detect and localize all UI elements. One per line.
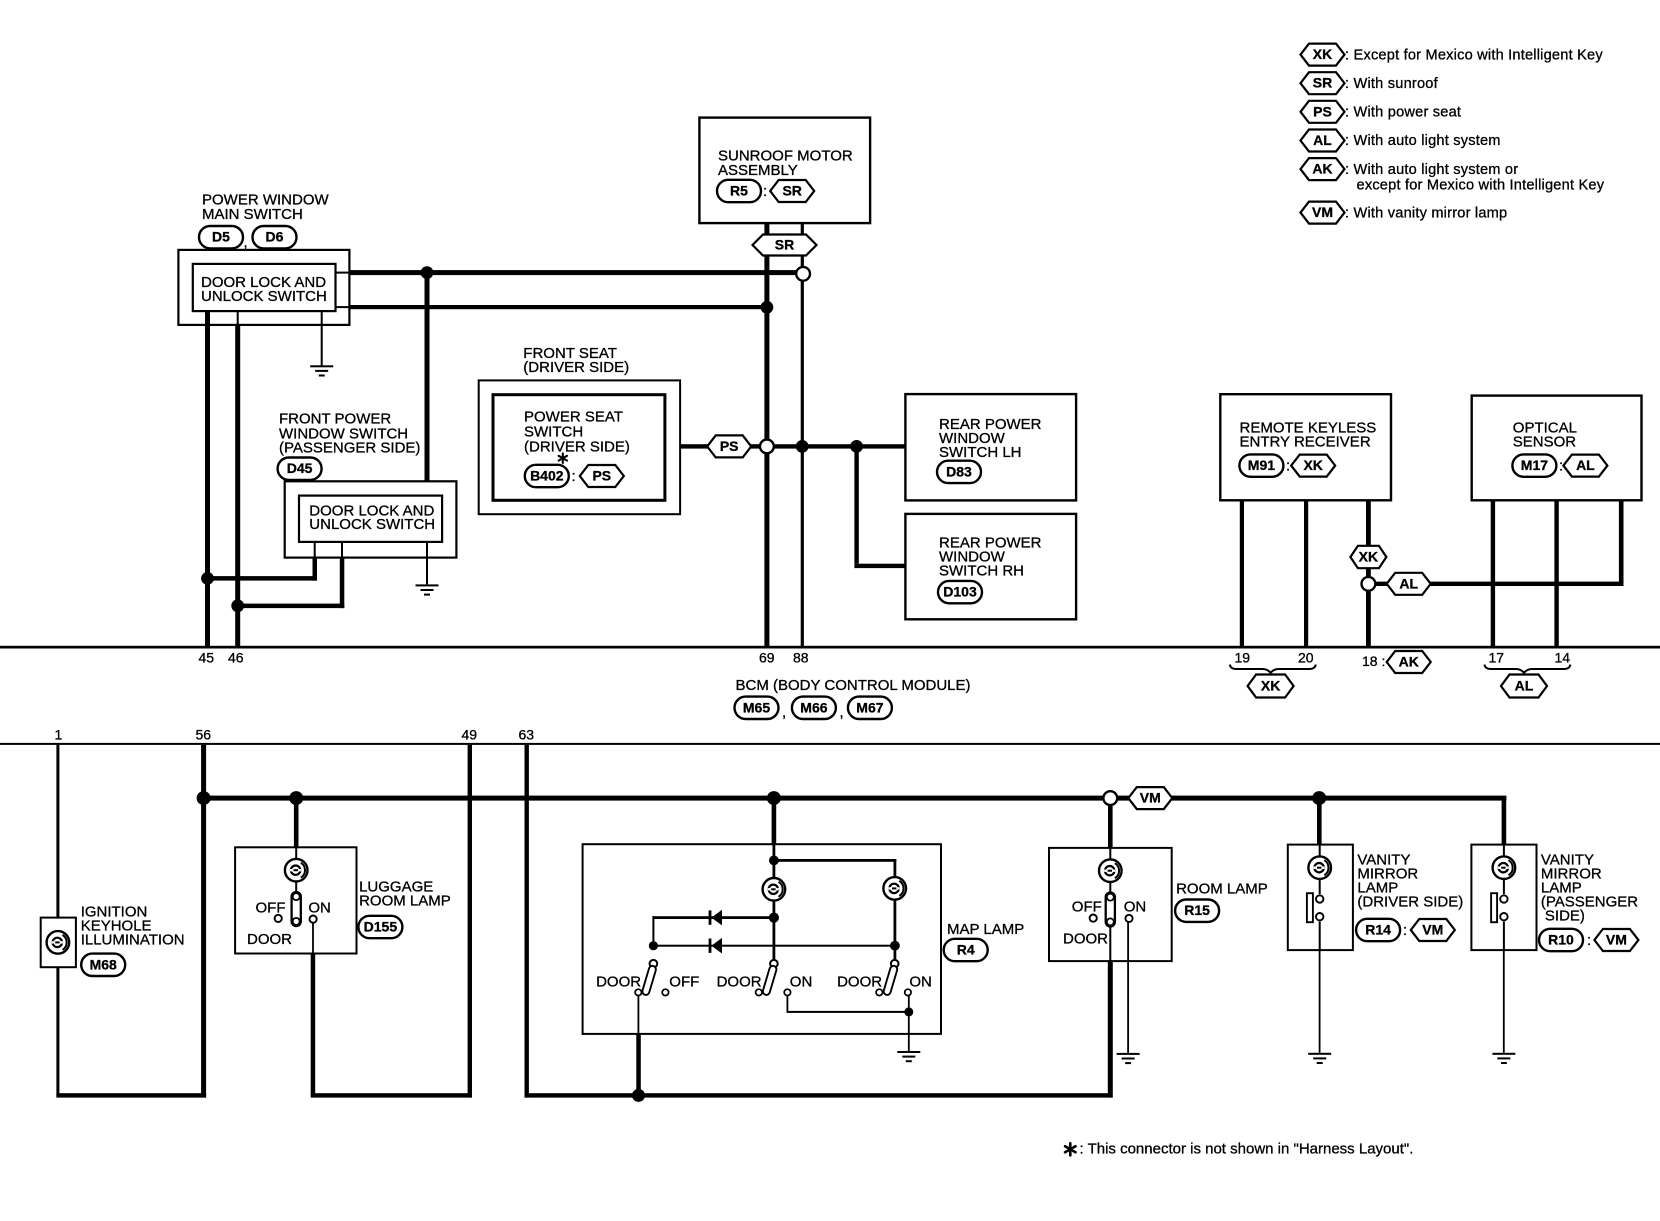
wire bus3 segment 63 to room lamp — [525, 1093, 1113, 1097]
svg-text:SENSOR: SENSOR — [1513, 434, 1577, 451]
door lock and unlock switch D5 inner box — [193, 264, 336, 311]
svg-text:D5: D5 — [212, 229, 230, 245]
svg-text:,: , — [840, 704, 844, 721]
legend PS symbol — [1301, 101, 1345, 123]
contact ON room — [1125, 915, 1132, 922]
ignition keyhole illumination box — [41, 918, 76, 968]
svg-text:19: 19 — [1235, 650, 1251, 666]
contact DOOR switch2 — [756, 989, 762, 995]
svg-text:XK: XK — [1303, 457, 1322, 473]
svg-text:: With auto light system or: : With auto light system or — [1345, 162, 1518, 178]
svg-text:D45: D45 — [287, 460, 313, 476]
svg-text:AL: AL — [1576, 457, 1595, 473]
svg-text:R15: R15 — [1184, 902, 1210, 918]
svg-text:except for Mexico with Intelli: except for Mexico with Intelligent Key — [1357, 178, 1605, 194]
connector D155 — [358, 916, 402, 938]
wire map top branch to right lamp — [773, 859, 897, 862]
wire AL branch vertical to optical sensor — [1619, 500, 1624, 586]
switch2 map pivot — [770, 960, 778, 968]
wire switch2 ON output — [787, 996, 789, 1012]
svg-text:46: 46 — [228, 650, 244, 666]
svg-text:XK: XK — [1313, 46, 1332, 62]
option SR on wires — [753, 235, 817, 256]
wire vanity passenger feed — [1502, 798, 1507, 845]
svg-text:VM: VM — [1422, 922, 1443, 938]
ground main switch — [310, 365, 333, 376]
diode D1 — [709, 910, 722, 926]
svg-text:XK: XK — [1359, 549, 1378, 565]
svg-text:: With sunroof: : With sunroof — [1345, 76, 1439, 92]
contact ON switch2 — [784, 989, 790, 995]
svg-text:SR: SR — [775, 237, 794, 253]
BCM bus line top — [0, 646, 1660, 649]
svg-text:M68: M68 — [90, 956, 117, 972]
svg-text:VM: VM — [1312, 204, 1333, 220]
junction map top branch — [769, 856, 779, 866]
junction row1 branch — [421, 266, 434, 279]
svg-text:1: 1 — [55, 727, 63, 743]
svg-text:: This connector is not shown: : This connector is not shown in "Harnes… — [1080, 1141, 1414, 1158]
option VM on distribution wire — [1128, 787, 1172, 809]
switch vanity driver — [1307, 893, 1324, 922]
svg-text:DOOR: DOOR — [837, 974, 882, 991]
junction at 88-wire row3 — [796, 440, 809, 453]
wire inside vanity passenger box — [1503, 845, 1505, 895]
svg-text:M91: M91 — [1248, 457, 1275, 473]
svg-text:ENTRY RECEIVER: ENTRY RECEIVER — [1240, 434, 1371, 451]
option PS in seat box — [580, 465, 624, 487]
brace under pins 19-20 — [1230, 665, 1316, 673]
svg-text:69: 69 — [759, 650, 775, 666]
svg-text:: Except for Mexico with Intel: : Except for Mexico with Intelligent Key — [1345, 47, 1603, 63]
wire pin46 vertical — [237, 311, 239, 325]
svg-text:R10: R10 — [1548, 932, 1574, 948]
note asterisk harness layout — [1065, 1143, 1075, 1155]
svg-text:17: 17 — [1489, 650, 1505, 666]
lamp vanity passenger — [1493, 856, 1516, 879]
wire pin20 vertical — [1304, 500, 1308, 646]
junction vanity driver feed — [1312, 791, 1326, 805]
wire inside luggage box — [295, 847, 297, 899]
ground passenger switch — [416, 584, 439, 595]
svg-text:B402: B402 — [530, 468, 564, 484]
svg-text::: : — [1403, 922, 1407, 939]
BCM bus line bottom — [0, 743, 1660, 745]
wire luggage ON output — [312, 922, 314, 953]
wire diode row2 — [653, 945, 895, 947]
switch luggage room lamp — [292, 892, 301, 926]
svg-text:R5: R5 — [730, 183, 748, 199]
svg-text:(DRIVER SIDE): (DRIVER SIDE) — [523, 359, 629, 376]
svg-text:SR: SR — [782, 183, 801, 199]
switch vanity passenger — [1491, 893, 1508, 922]
svg-text:: With auto light system: : With auto light system — [1345, 133, 1501, 149]
door lock and unlock switch D45 inner box — [299, 496, 442, 542]
wire right lamp to switch3 — [894, 899, 897, 962]
contact DOOR switch1 — [635, 989, 641, 995]
legend SR symbol — [1301, 72, 1345, 94]
rear power window switch LH box — [905, 394, 1076, 500]
option XK under brace — [1248, 675, 1294, 698]
junction ON outputs — [904, 1007, 913, 1016]
junction row2 at 69-wire — [761, 301, 774, 314]
junction pin45 row — [201, 572, 214, 585]
svg-text::: : — [763, 183, 767, 200]
connector M91 — [1239, 454, 1283, 476]
connector M68 — [81, 954, 125, 976]
ground room lamp — [1117, 1053, 1140, 1064]
wire PS hexagon to rear window LH — [750, 444, 905, 448]
option VM at R10 — [1594, 929, 1638, 951]
wire inside vanity driver box — [1319, 845, 1321, 895]
svg-text::: : — [572, 468, 576, 485]
wire switch3 ON to ground — [908, 996, 910, 1012]
brace under pins 17-14 — [1484, 665, 1570, 673]
option AK below pin 18 — [1387, 651, 1431, 673]
lamp ignition keyhole — [47, 931, 70, 954]
svg-text:ON: ON — [909, 974, 932, 991]
option PS on wire — [707, 435, 751, 457]
switch3 map bar — [883, 965, 898, 996]
svg-text:UNLOCK SWITCH: UNLOCK SWITCH — [201, 288, 327, 305]
vanity mirror lamp driver box — [1288, 845, 1353, 951]
option XK in receiver box — [1291, 455, 1335, 477]
front power window switch outer box — [285, 481, 457, 557]
svg-text:ON: ON — [1124, 899, 1147, 916]
open junction PS at 69-wire — [760, 440, 774, 454]
contact ON switch3 — [905, 989, 911, 995]
switch room lamp — [1106, 893, 1115, 927]
wire passenger pin a down-left — [314, 542, 316, 558]
svg-text:VM: VM — [1140, 790, 1161, 806]
wire pin63 vertical — [525, 745, 529, 1098]
svg-text:ROOM LAMP: ROOM LAMP — [1176, 881, 1268, 898]
junction map diode row1 — [769, 913, 779, 923]
open junction VM at room lamp — [1103, 791, 1117, 805]
svg-text:AL: AL — [1313, 132, 1332, 148]
luggage room lamp box — [235, 847, 356, 953]
wire vanity passenger to ground — [1503, 950, 1505, 1053]
svg-text:M67: M67 — [856, 699, 883, 715]
switch1 map pivot — [650, 960, 658, 968]
svg-text:(DRIVER SIDE): (DRIVER SIDE) — [1357, 894, 1463, 911]
wire distribution horizontal — [201, 796, 1506, 801]
wire ground stub main switch — [321, 311, 323, 366]
wire inside room lamp box — [1109, 848, 1111, 961]
connector D103 — [938, 581, 982, 603]
svg-text:PS: PS — [1313, 103, 1332, 119]
svg-text:PS: PS — [592, 468, 611, 484]
wire pin17 vertical — [1491, 500, 1495, 646]
wire pin88 vertical — [801, 223, 804, 647]
svg-text:XK: XK — [1261, 678, 1280, 694]
svg-text:OFF: OFF — [256, 900, 286, 917]
wire room ON to ground — [1127, 922, 1129, 1053]
wire switch1 DOOR output — [638, 996, 640, 1034]
room lamp box — [1049, 848, 1172, 961]
svg-text:M65: M65 — [743, 699, 770, 715]
svg-text:AK: AK — [1312, 161, 1332, 177]
option VM at R14 — [1411, 919, 1455, 941]
lamp vanity driver — [1308, 856, 1331, 879]
svg-text:D155: D155 — [364, 919, 398, 935]
svg-text:D83: D83 — [946, 463, 972, 479]
wire left lamp to switch2 — [773, 900, 776, 962]
wire pin56 vertical — [201, 745, 206, 1098]
contact ON luggage — [310, 916, 317, 923]
option AL on branch wire — [1387, 573, 1431, 595]
junction rear window branch — [850, 440, 863, 453]
svg-text:D6: D6 — [266, 229, 284, 245]
svg-text:45: 45 — [199, 650, 215, 666]
svg-text:ILLUMINATION: ILLUMINATION — [81, 932, 185, 949]
svg-text:SR: SR — [1313, 75, 1332, 91]
option AL under brace — [1501, 675, 1547, 698]
wire power seat to PS hexagon — [680, 444, 708, 448]
wire pin19 vertical — [1240, 500, 1244, 646]
switch3 map pivot — [891, 960, 899, 968]
svg-text:ON: ON — [308, 900, 331, 917]
svg-text:,: , — [244, 234, 248, 251]
ground vanity driver — [1308, 1053, 1331, 1064]
svg-text:OFF: OFF — [669, 974, 699, 991]
svg-text:20: 20 — [1298, 650, 1314, 666]
lamp map left — [763, 878, 786, 901]
map lamp box — [583, 844, 941, 1034]
option XK on wire 18 — [1350, 546, 1386, 568]
wire pin1 vertical — [56, 745, 59, 1097]
ground map lamp — [897, 1051, 920, 1062]
legend AL symbol — [1301, 130, 1345, 152]
svg-text::: : — [1286, 458, 1290, 475]
connector M67 — [848, 697, 892, 719]
remote keyless entry receiver box — [1220, 394, 1391, 500]
svg-text:(PASSENGER SIDE): (PASSENGER SIDE) — [279, 440, 420, 457]
svg-text:14: 14 — [1555, 650, 1571, 666]
contact OFF luggage — [275, 915, 282, 922]
svg-text:AK: AK — [1399, 654, 1419, 670]
connector M66 — [792, 697, 836, 719]
connector D5 — [199, 226, 243, 248]
svg-text:M17: M17 — [1521, 457, 1548, 473]
wire row1 horizontal to sunroof SR circle — [336, 272, 350, 274]
contact OFF room — [1090, 915, 1097, 922]
wire pin49 vertical — [468, 745, 472, 1098]
connector D6 — [253, 226, 297, 248]
svg-text:: With vanity mirror lamp: : With vanity mirror lamp — [1345, 205, 1507, 221]
svg-text:AL: AL — [1515, 678, 1534, 694]
wire bottom U pin1 to pin56 — [56, 1093, 206, 1097]
svg-text:18 :: 18 : — [1362, 653, 1385, 669]
wire branch down from row1 to passenger switch — [425, 273, 430, 496]
connector R14 — [1356, 919, 1400, 941]
svg-text:R14: R14 — [1365, 922, 1391, 938]
connector R5 — [717, 180, 761, 202]
switch1 map bar — [642, 965, 657, 996]
ground vanity passenger — [1492, 1053, 1515, 1064]
connector R4 — [944, 939, 988, 961]
optical sensor box — [1472, 396, 1642, 501]
legend AK symbol — [1301, 158, 1345, 180]
svg-text:ON: ON — [790, 974, 813, 991]
svg-text:MAP LAMP: MAP LAMP — [947, 921, 1024, 938]
svg-text:DOOR: DOOR — [1063, 931, 1108, 948]
wire vanity driver feed — [1317, 798, 1322, 845]
option AL in optical box — [1563, 455, 1607, 477]
open junction XK-AL at wire 18 — [1362, 577, 1376, 591]
connector M17 — [1512, 454, 1556, 476]
svg-text:AL: AL — [1399, 575, 1418, 591]
svg-text:D103: D103 — [943, 584, 977, 600]
connector R15 — [1175, 900, 1219, 922]
junction pin46 row — [231, 599, 244, 612]
svg-text:VM: VM — [1606, 932, 1627, 948]
svg-text:M66: M66 — [800, 699, 827, 715]
svg-text:DOOR: DOOR — [596, 974, 641, 991]
junction map lamp feed — [767, 791, 781, 805]
svg-text:BCM (BODY CONTROL MODULE): BCM (BODY CONTROL MODULE) — [736, 677, 971, 694]
asterisk B402 — [559, 453, 567, 463]
svg-text:R4: R4 — [957, 942, 975, 958]
wire room lamp to bus3 — [1108, 961, 1113, 1098]
wire AL branch horizontal — [1368, 582, 1621, 586]
svg-text:63: 63 — [519, 727, 535, 743]
vanity mirror lamp passenger box — [1471, 845, 1536, 951]
wire map feed inside to left lamp — [773, 844, 776, 878]
svg-text:: With power seat: : With power seat — [1345, 105, 1461, 121]
switch2 map bar — [762, 965, 777, 996]
wire map lamp feed — [772, 798, 777, 844]
connector D45 — [278, 458, 322, 480]
svg-text:MAIN SWITCH: MAIN SWITCH — [202, 206, 303, 223]
connector M65 — [735, 697, 779, 719]
svg-text:(DRIVER SIDE): (DRIVER SIDE) — [524, 439, 630, 456]
wire vanity driver to ground — [1319, 950, 1321, 1053]
svg-text:56: 56 — [196, 727, 212, 743]
contact DOOR switch3 — [876, 989, 882, 995]
svg-text:88: 88 — [793, 650, 809, 666]
contact OFF switch1 — [662, 989, 668, 995]
svg-text:UNLOCK SWITCH: UNLOCK SWITCH — [309, 516, 435, 533]
junction right lamp wire row2 — [890, 941, 900, 951]
junction map diode row2 — [649, 941, 658, 950]
svg-text:49: 49 — [462, 727, 478, 743]
power window main switch outer box — [178, 250, 349, 325]
wire ground stub passenger switch — [426, 542, 428, 585]
wire luggage lamp feed — [294, 798, 299, 847]
wire down-left of diode row1 — [652, 916, 654, 946]
wire room lamp drop — [1108, 798, 1113, 848]
legend VM symbol — [1301, 202, 1345, 224]
connector R10 — [1539, 929, 1583, 951]
svg-text:DOOR: DOOR — [717, 974, 762, 991]
wire branch down to rear window RH — [854, 446, 858, 563]
lamp luggage room — [285, 859, 308, 882]
option SR in sunroof box — [770, 180, 814, 202]
svg-text:,: , — [782, 704, 786, 721]
wire pin45 vertical — [205, 311, 210, 647]
legend XK symbol — [1301, 44, 1345, 66]
junction luggage feed — [289, 791, 303, 805]
wire pin14 vertical — [1554, 500, 1558, 646]
svg-text:SWITCH RH: SWITCH RH — [939, 563, 1024, 580]
wire passenger pin b down-left — [341, 542, 343, 558]
wire pin69 vertical — [764, 223, 769, 647]
svg-text:ASSEMBLY: ASSEMBLY — [718, 162, 798, 179]
connector B402 — [525, 465, 569, 487]
svg-text:PS: PS — [720, 438, 739, 454]
wire row2 horizontal to node at 69-wire — [336, 306, 350, 308]
lamp room — [1099, 859, 1122, 882]
lamp map right — [883, 877, 906, 900]
connector D83 — [937, 461, 981, 483]
svg-text:DOOR: DOOR — [247, 931, 292, 948]
junction map lamp door output at bus3 — [632, 1089, 645, 1102]
svg-text:OFF: OFF — [1072, 899, 1102, 916]
diode D2 — [709, 938, 722, 954]
svg-text:ROOM LAMP: ROOM LAMP — [359, 893, 451, 910]
open junction SR at 88-wire — [796, 267, 810, 281]
power seat switch inner box — [493, 395, 665, 501]
svg-text::: : — [1587, 932, 1591, 949]
rear power window switch RH box — [905, 514, 1076, 619]
junction pin56 distribution — [197, 791, 211, 805]
svg-text:SIDE): SIDE) — [1545, 908, 1585, 925]
wire diode row1 — [652, 916, 774, 919]
sunroof motor assembly box — [699, 118, 870, 224]
wire pin18 vertical — [1366, 500, 1371, 646]
front seat outer box — [479, 380, 680, 514]
svg-text:SWITCH LH: SWITCH LH — [939, 444, 1022, 461]
wire bus3 segment luggage to 49 — [311, 1093, 472, 1097]
